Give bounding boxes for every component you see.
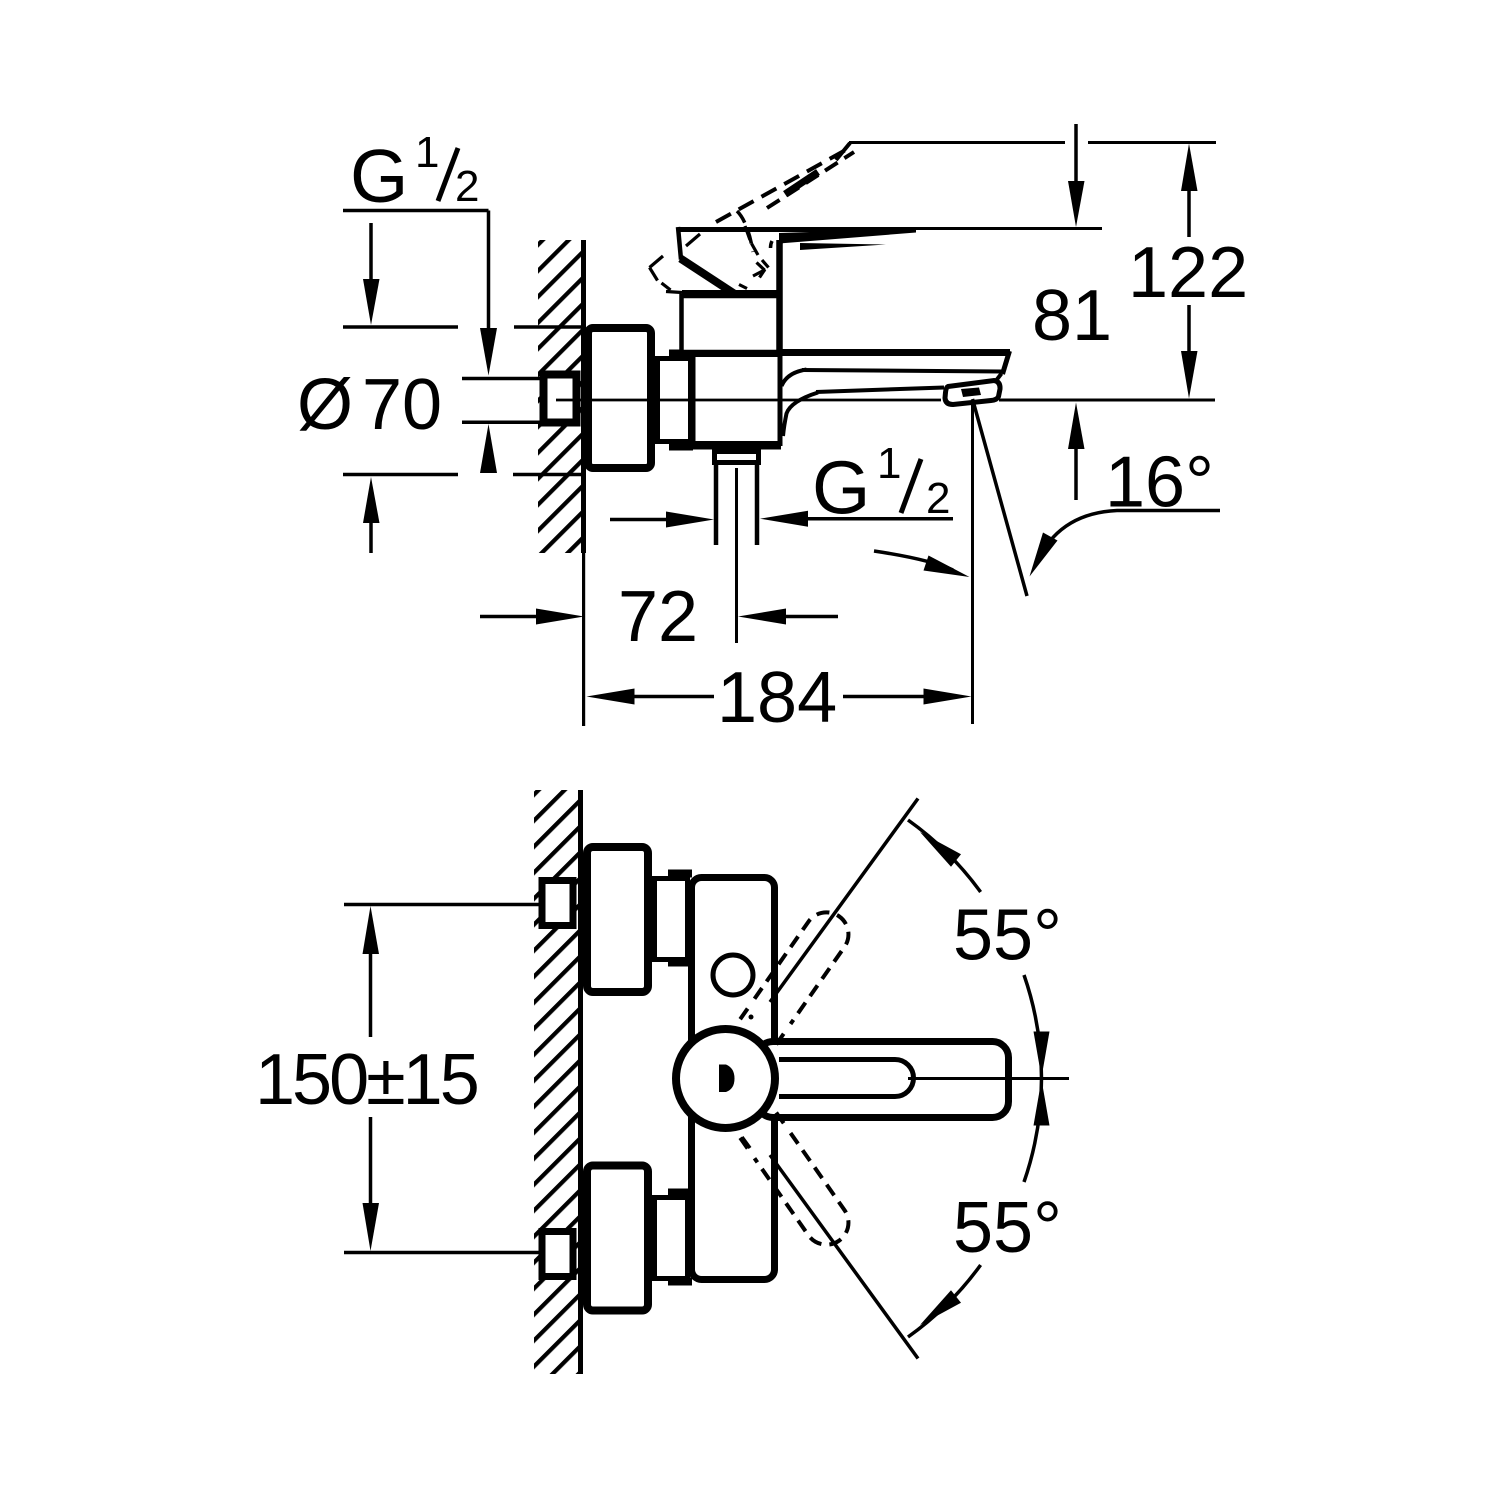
node G 1/2 label (hose outlet) — [610, 439, 953, 530]
svg-text:16°: 16° — [1105, 443, 1214, 523]
wall hatching — [538, 240, 583, 553]
wire 55 deg line lower — [770, 1155, 918, 1359]
node dashed lever up position — [740, 904, 857, 1045]
node body front view — [692, 878, 775, 1280]
node hub circle — [676, 1029, 775, 1128]
node arc 55 upper — [908, 820, 1050, 1079]
svg-text:122: 122 — [1128, 233, 1248, 313]
wire stray dashes — [749, 1015, 754, 1020]
node union nut — [658, 359, 691, 442]
svg-text:55°: 55° — [953, 896, 1062, 976]
node Ø 70 dimension — [297, 223, 586, 553]
svg-text:2: 2 — [926, 474, 950, 523]
node handle slot — [779, 1060, 914, 1097]
svg-text:1: 1 — [877, 439, 901, 488]
node upper union nut front — [655, 879, 688, 960]
node dimension 72 — [480, 577, 838, 657]
wall line — [581, 240, 586, 553]
svg-text:72: 72 — [618, 577, 698, 657]
node dashed lever down position — [740, 1113, 857, 1254]
wire leader G1/2 to pipe — [487, 211, 491, 331]
node arc 55 lower — [908, 1079, 1050, 1338]
svg-text:G: G — [350, 134, 408, 218]
node upper square fitting — [542, 881, 573, 926]
svg-text:184: 184 — [717, 658, 837, 738]
svg-text:55°: 55° — [953, 1188, 1062, 1268]
wire 55 deg line upper — [770, 799, 918, 1003]
wire handle hidden dashes — [650, 226, 769, 293]
node dimension 150±15 — [255, 905, 540, 1253]
node faucet body upper (cartridge housing) — [682, 296, 780, 352]
node spout — [777, 351, 1010, 436]
wall hatching — [534, 790, 579, 1374]
node escutcheon (wall flange) — [588, 328, 651, 468]
node dimension 122 — [1128, 144, 1248, 399]
wire main center line — [556, 399, 941, 402]
wire hose thread tube — [714, 464, 719, 545]
svg-text:150±15: 150±15 — [255, 1040, 478, 1120]
node lower escutcheon front — [587, 1166, 648, 1311]
wall line — [578, 790, 583, 1374]
svg-text:81: 81 — [1032, 276, 1112, 356]
svg-text:Ø: Ø — [297, 365, 353, 445]
node square elbow fitting behind wall — [544, 375, 577, 423]
wire extension line 122 top — [849, 141, 1065, 144]
node upper escutcheon front — [587, 847, 648, 992]
wire supply pipe lines — [462, 377, 542, 381]
svg-text:G: G — [812, 446, 870, 530]
wire tube center line — [735, 468, 738, 643]
svg-text:1: 1 — [415, 128, 439, 177]
node keyhole mark — [719, 1065, 735, 1093]
node handle lever (closed position) — [678, 227, 916, 355]
wire extension line lever top — [916, 227, 1102, 230]
svg-text:70: 70 — [362, 365, 442, 445]
node lower union nut front — [655, 1198, 688, 1279]
node handle lever open position (dashed) — [716, 143, 854, 252]
node dimension 184 — [587, 658, 972, 738]
node faucet body lower — [693, 355, 780, 444]
wire center line front — [908, 1077, 1069, 1080]
wire cap top line — [682, 290, 777, 298]
node screw — [713, 955, 753, 995]
node lower square fitting — [542, 1232, 573, 1277]
node aerator tip — [945, 381, 1000, 405]
node handle front view — [757, 1042, 1009, 1118]
wall extension line — [582, 553, 585, 726]
node dimension 81 — [1032, 124, 1112, 500]
wire body bottom bar — [669, 443, 781, 450]
node hose outlet collar — [715, 452, 759, 463]
node G 1/2 label (wall supply) — [343, 128, 489, 218]
svg-text:2: 2 — [455, 162, 479, 211]
node dimension 16 degrees — [874, 399, 1220, 724]
